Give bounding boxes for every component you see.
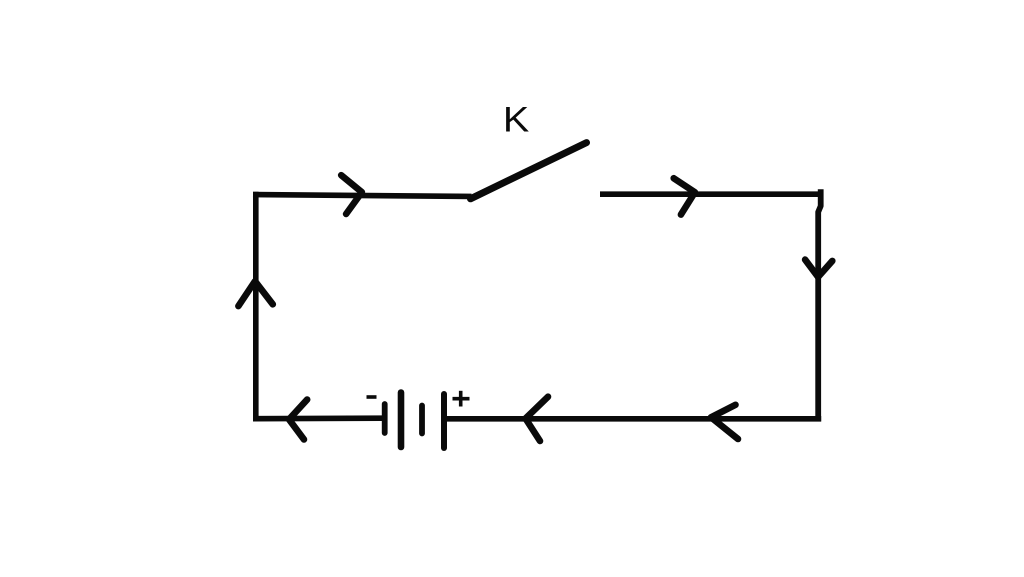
wire: bottom-left horizontal segment <box>253 415 383 421</box>
battery: short plate (middle) <box>419 406 425 434</box>
wire: left vertical segment <box>253 192 259 421</box>
arrow: current direction on top-left wire <box>341 175 362 214</box>
battery: short negative plate (left) <box>382 404 388 433</box>
arrow: current direction on bottom wire middle (left) <box>526 397 549 441</box>
arrow: current direction on left wire (up) <box>238 281 272 306</box>
battery polarity: minus sign <box>367 395 377 399</box>
arrow: current direction on right wire (down) <box>805 260 832 277</box>
arrow: current direction on bottom wire left (left) <box>289 400 307 440</box>
wire: right vertical segment <box>818 189 821 421</box>
battery: tall positive plate (right) <box>441 394 447 448</box>
battery polarity: plus sign (vertical bar) <box>459 391 463 407</box>
arrow: current direction on top-right wire <box>674 178 695 214</box>
battery polarity: plus sign (horizontal bar) <box>453 397 470 401</box>
wire: bottom-right horizontal segment <box>447 416 822 422</box>
arrow: current direction on bottom wire right (left) <box>711 405 738 439</box>
wire: top-left horizontal segment <box>253 195 472 197</box>
switch K blade <box>471 143 587 199</box>
svg-text:K: K <box>503 100 529 139</box>
wire: top-right horizontal segment <box>600 191 823 197</box>
battery: tall plate (left cell) <box>398 393 405 448</box>
